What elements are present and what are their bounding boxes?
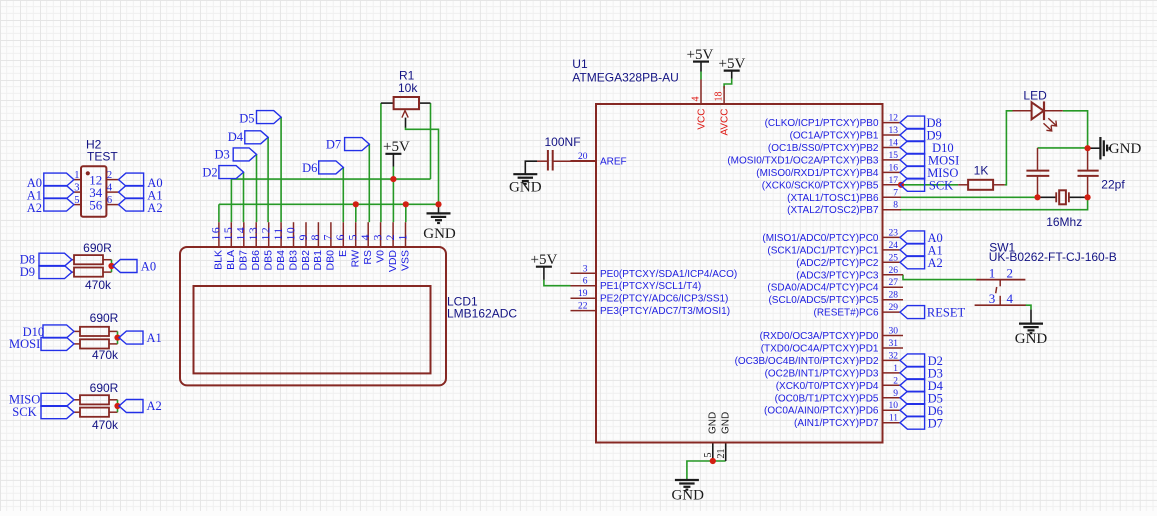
svg-text:D7: D7	[326, 138, 341, 152]
svg-text:29: 29	[889, 303, 899, 313]
svg-text:A2: A2	[147, 399, 162, 413]
svg-text:1: 1	[893, 364, 898, 374]
svg-text:DB3: DB3	[287, 250, 299, 271]
svg-text:RS: RS	[362, 250, 374, 265]
svg-text:(RESET#)PC6: (RESET#)PC6	[813, 308, 878, 319]
svg-text:22pf: 22pf	[1101, 177, 1125, 191]
svg-text:5: 5	[74, 195, 79, 206]
svg-text:22: 22	[578, 302, 588, 312]
svg-text:470k: 470k	[92, 348, 119, 362]
svg-text:(SCK1/ADC1/PTCY)PC1: (SCK1/ADC1/PTCY)PC1	[767, 245, 879, 256]
svg-text:ATMEGA328PB-AU: ATMEGA328PB-AU	[572, 71, 678, 85]
svg-text:(AIN1/PTCXY)PD7: (AIN1/PTCXY)PD7	[794, 418, 879, 429]
svg-text:31: 31	[889, 339, 899, 349]
svg-text:(OC1A/PTCXY)PB1: (OC1A/PTCXY)PB1	[790, 131, 879, 142]
svg-text:24: 24	[889, 241, 899, 251]
svg-text:LED: LED	[1023, 89, 1047, 103]
svg-text:1: 1	[74, 170, 79, 181]
svg-text:DB7: DB7	[238, 250, 250, 271]
svg-text:PE3(PTCY/ADC7/T3/MOSI1): PE3(PTCY/ADC7/T3/MOSI1)	[600, 306, 730, 317]
svg-text:(OC3B/OC4B/INT0/PTCXY)PD2: (OC3B/OC4B/INT0/PTCXY)PD2	[735, 356, 879, 367]
svg-text:3: 3	[583, 264, 588, 274]
svg-text:U1: U1	[572, 57, 588, 71]
svg-text:LMB162ADC: LMB162ADC	[447, 307, 517, 321]
svg-text:D2: D2	[202, 166, 217, 180]
svg-text:(OC1B/SS0/PTCXY)PB2: (OC1B/SS0/PTCXY)PB2	[768, 143, 879, 154]
svg-text:7: 7	[893, 188, 898, 198]
svg-text:PE2(PTCY/ADC6/ICP3/SS1): PE2(PTCY/ADC6/ICP3/SS1)	[600, 294, 728, 305]
svg-text:690R: 690R	[83, 241, 112, 255]
svg-text:A0: A0	[141, 259, 156, 273]
svg-text:(MOSI0/TXD1/OC2A/PTCXY)PB3: (MOSI0/TXD1/OC2A/PTCXY)PB3	[727, 155, 879, 166]
svg-text:(ADC2/PTCY)PC2: (ADC2/PTCY)PC2	[796, 258, 879, 269]
svg-text:AVCC: AVCC	[719, 109, 730, 136]
svg-text:2: 2	[1007, 266, 1014, 281]
svg-text:(MISO1/ADC0/PTCY)PC0: (MISO1/ADC0/PTCY)PC0	[762, 233, 879, 244]
svg-text:D4: D4	[228, 130, 244, 144]
svg-text:DB4: DB4	[275, 250, 287, 271]
svg-text:UK-B0262-FT-CJ-160-B: UK-B0262-FT-CJ-160-B	[989, 250, 1117, 264]
svg-text:BLA: BLA	[225, 250, 237, 270]
svg-text:690R: 690R	[90, 381, 119, 395]
svg-text:9: 9	[893, 389, 898, 399]
svg-text:28: 28	[889, 291, 899, 301]
svg-text:(XTAL1/TOSC1)PB6: (XTAL1/TOSC1)PB6	[787, 193, 879, 204]
svg-text:2: 2	[893, 376, 898, 386]
svg-text:30: 30	[889, 327, 899, 337]
svg-text:1: 1	[395, 233, 409, 240]
svg-text:DB5: DB5	[263, 250, 275, 271]
svg-text:A2: A2	[147, 201, 162, 215]
svg-text:(CLKO/ICP1/PTCXY)PB0: (CLKO/ICP1/PTCXY)PB0	[765, 118, 879, 129]
svg-text:23: 23	[889, 228, 899, 238]
svg-text:D7: D7	[928, 416, 943, 430]
svg-text:DB1: DB1	[312, 250, 324, 271]
svg-text:GND: GND	[720, 412, 731, 434]
svg-text:+5V: +5V	[383, 139, 410, 155]
svg-text:21: 21	[716, 449, 727, 459]
svg-text:2: 2	[107, 170, 112, 181]
svg-text:A2: A2	[928, 256, 943, 270]
svg-text:15: 15	[889, 151, 899, 161]
svg-text:10: 10	[889, 401, 899, 411]
svg-text:19: 19	[578, 289, 588, 299]
svg-text:+5V: +5V	[531, 252, 558, 268]
svg-text:DB0: DB0	[325, 250, 337, 271]
svg-text:(XTAL2/TOSC2)PB7: (XTAL2/TOSC2)PB7	[787, 205, 879, 216]
svg-text:26: 26	[889, 266, 899, 276]
svg-text:A2: A2	[27, 201, 42, 215]
svg-text:3: 3	[989, 291, 996, 306]
svg-text:1K: 1K	[974, 164, 989, 178]
svg-text:(ADC3/PTCY)PC3: (ADC3/PTCY)PC3	[796, 270, 879, 281]
svg-text:D5: D5	[239, 112, 254, 126]
svg-text:GND: GND	[1109, 141, 1142, 157]
svg-text:RW: RW	[350, 250, 362, 267]
svg-text:3: 3	[74, 182, 79, 193]
svg-text:(OC0B/T1/PTCXY)PD5: (OC0B/T1/PTCXY)PD5	[775, 393, 879, 404]
svg-text:TEST: TEST	[87, 150, 118, 164]
svg-text:BLK: BLK	[213, 250, 225, 270]
svg-text:D6: D6	[302, 161, 317, 175]
svg-text:(RXD0/OC3A/PTCXY)PD0: (RXD0/OC3A/PTCXY)PD0	[760, 331, 879, 342]
svg-text:(OC2B/INT1/PTCXY)PD3: (OC2B/INT1/PTCXY)PD3	[765, 368, 879, 379]
svg-text:4: 4	[107, 182, 113, 193]
svg-text:4: 4	[1007, 291, 1014, 306]
svg-text:E: E	[337, 250, 349, 257]
svg-text:A1: A1	[147, 331, 162, 345]
svg-text:13: 13	[889, 126, 899, 136]
svg-text:8: 8	[893, 201, 898, 211]
svg-text:PE0(PTCXY/SDA1/ICP4/ACO): PE0(PTCXY/SDA1/ICP4/ACO)	[600, 269, 737, 280]
svg-text:17: 17	[889, 176, 899, 186]
svg-text:6: 6	[107, 195, 112, 206]
svg-text:18: 18	[714, 92, 725, 102]
svg-text:VSS: VSS	[399, 250, 411, 271]
svg-text:20: 20	[578, 152, 588, 162]
svg-text:AREF: AREF	[600, 156, 627, 167]
svg-text:(SDA0/ADC4/PTCY)PC4: (SDA0/ADC4/PTCY)PC4	[767, 283, 879, 294]
svg-text:GND: GND	[509, 180, 542, 196]
svg-text:GND: GND	[423, 226, 456, 242]
svg-text:SCK: SCK	[929, 178, 953, 192]
svg-text:(MISO0/RXD1/PTCXY)PB4: (MISO0/RXD1/PTCXY)PB4	[756, 168, 879, 179]
svg-text:6: 6	[583, 277, 588, 287]
svg-text:10k: 10k	[398, 81, 418, 95]
svg-text:1: 1	[989, 266, 996, 281]
svg-text:VCC: VCC	[696, 109, 707, 130]
svg-text:32: 32	[889, 351, 899, 361]
svg-text:470k: 470k	[92, 418, 119, 432]
svg-text:RESET: RESET	[927, 306, 966, 320]
svg-text:27: 27	[889, 278, 899, 288]
svg-text:VDD: VDD	[387, 250, 399, 273]
svg-text:+5V: +5V	[719, 56, 746, 72]
svg-text:D9: D9	[20, 265, 35, 279]
svg-text:(XCK0/T0/PTCXY)PD4: (XCK0/T0/PTCXY)PD4	[776, 381, 879, 392]
svg-text:D3: D3	[215, 147, 230, 161]
svg-text:DB6: DB6	[250, 250, 262, 271]
svg-text:16Mhz: 16Mhz	[1046, 215, 1082, 229]
svg-text:(TXD0/OC4A/PTCXY)PD1: (TXD0/OC4A/PTCXY)PD1	[761, 344, 879, 355]
svg-text:DB2: DB2	[300, 250, 312, 271]
svg-text:56: 56	[89, 197, 103, 212]
svg-text:(XCK0/SCK0/PTCXY)PB5: (XCK0/SCK0/PTCXY)PB5	[762, 180, 879, 191]
svg-text:GND: GND	[1015, 331, 1048, 347]
svg-text:470k: 470k	[85, 278, 112, 292]
svg-text:GND: GND	[671, 488, 704, 504]
svg-text:(SCL0/ADC5/PTCY)PC5: (SCL0/ADC5/PTCY)PC5	[768, 295, 878, 306]
svg-text:(OC0A/AIN0/PTCXY)PD6: (OC0A/AIN0/PTCXY)PD6	[764, 406, 879, 417]
svg-text:25: 25	[889, 253, 899, 263]
svg-text:GND: GND	[707, 412, 718, 434]
svg-text:PE1(PTCXY/SCL1/T4): PE1(PTCXY/SCL1/T4)	[600, 281, 701, 292]
svg-text:MOSI: MOSI	[9, 337, 40, 351]
svg-text:4: 4	[690, 97, 701, 102]
svg-text:11: 11	[889, 414, 898, 424]
svg-text:V0: V0	[374, 250, 386, 263]
svg-text:SCK: SCK	[12, 405, 36, 419]
svg-text:100NF: 100NF	[545, 135, 581, 149]
svg-text:+5V: +5V	[687, 47, 714, 63]
svg-text:12: 12	[889, 114, 899, 124]
svg-text:16: 16	[889, 163, 899, 173]
svg-text:690R: 690R	[90, 311, 119, 325]
svg-text:14: 14	[889, 139, 899, 149]
svg-text:5: 5	[703, 453, 714, 458]
